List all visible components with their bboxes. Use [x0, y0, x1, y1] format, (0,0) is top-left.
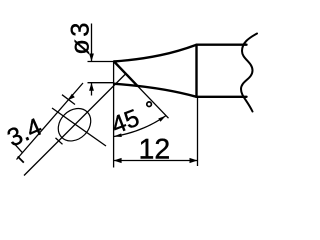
svg-text:12: 12 [139, 133, 171, 165]
svg-text:ø3: ø3 [67, 20, 95, 55]
